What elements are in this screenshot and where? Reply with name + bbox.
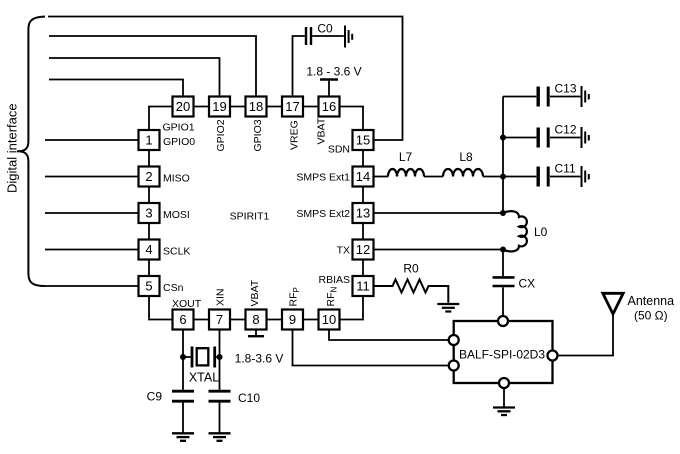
svg-text:19: 19 <box>212 99 226 114</box>
svg-text:VREG: VREG <box>289 120 301 150</box>
pin 8 box <box>246 310 267 330</box>
svg-text:C11: C11 <box>555 162 576 176</box>
svg-text:SPIRIT1: SPIRIT1 <box>230 211 270 223</box>
wire stub pin 3 <box>45 212 139 214</box>
pin 19 box <box>209 97 230 117</box>
balun U2 BALF-SPI-02D3 <box>454 321 553 383</box>
wire balun to ground <box>503 389 505 408</box>
inductor L0 <box>503 211 527 251</box>
pin 13 box <box>353 203 374 223</box>
pin 9 box <box>282 310 303 330</box>
svg-text:RBIAS: RBIAS <box>318 274 350 286</box>
wire bus line 4 to pin 20 <box>49 80 183 97</box>
capacitor C12 <box>503 128 580 148</box>
svg-text:2: 2 <box>145 169 152 184</box>
svg-text:XTAL: XTAL <box>189 371 219 385</box>
svg-text:R0: R0 <box>403 262 419 276</box>
svg-text:10: 10 <box>322 312 336 327</box>
capacitor C11 <box>503 167 580 187</box>
svg-text:12: 12 <box>356 242 370 257</box>
svg-text:SMPS Ext2: SMPS Ext2 <box>296 208 350 220</box>
capacitor C13 <box>503 87 580 107</box>
wire stub pin 4 <box>45 249 139 251</box>
svg-text:SCLK: SCLK <box>163 246 190 258</box>
node C12 junction <box>500 135 506 141</box>
pin 16 box <box>319 97 340 117</box>
wire L7 to L8 <box>424 176 443 178</box>
balun pin bottom <box>499 378 509 388</box>
svg-text:RFP: RFP <box>288 287 302 306</box>
svg-text:C10: C10 <box>238 391 260 405</box>
svg-text:5: 5 <box>145 279 152 294</box>
svg-text:14: 14 <box>356 169 370 184</box>
svg-text:MISO: MISO <box>163 173 190 185</box>
svg-text:GPIO2: GPIO2 <box>215 119 227 151</box>
svg-text:Digital interface: Digital interface <box>5 103 20 193</box>
pin 2 box <box>139 167 160 187</box>
node L0 top junction <box>500 210 506 216</box>
wire pin 12 to rail <box>374 249 504 251</box>
pin 3 box <box>139 203 160 223</box>
chip ring wire <box>149 107 363 320</box>
capacitor C10 <box>209 391 231 433</box>
ground (rotated) for C11 <box>582 166 589 187</box>
pin 5 box <box>139 276 160 296</box>
svg-text:SDN: SDN <box>328 144 350 156</box>
svg-text:C0: C0 <box>317 22 333 36</box>
svg-text:9: 9 <box>289 312 296 327</box>
node xtal right junction <box>217 354 223 360</box>
balun pin left1 <box>449 335 459 345</box>
svg-text:20: 20 <box>176 99 190 114</box>
wire pin 7 down <box>219 330 221 390</box>
pin name labels <box>163 117 351 310</box>
balun pin left2 <box>449 361 459 371</box>
svg-text:18: 18 <box>249 99 263 114</box>
ground (rotated) for C13 <box>582 86 589 107</box>
rail vertical net <box>502 97 504 214</box>
resistor R0 <box>374 280 449 303</box>
wire bus line 2 to pin 18 <box>49 36 256 97</box>
pin 15 box <box>353 130 374 150</box>
digital interface bracket <box>17 17 45 287</box>
inductor L7 <box>374 176 389 178</box>
wire balun to antenna <box>558 314 613 356</box>
wire stub pin 1 <box>45 139 139 141</box>
ground (rotated) for C0 <box>345 26 352 48</box>
supply 1.8-3.6V bottom at pin 8 <box>248 330 264 337</box>
svg-text:GPIO1: GPIO1 <box>163 122 195 134</box>
svg-text:XOUT: XOUT <box>172 298 202 310</box>
antenna <box>603 293 623 314</box>
inductor L8 <box>443 169 483 176</box>
pin 1 box <box>139 130 160 150</box>
ground for balun <box>493 408 515 416</box>
capacitor C9 <box>172 391 194 433</box>
wire pin 13 to rail <box>374 212 504 214</box>
svg-text:8: 8 <box>252 312 259 327</box>
svg-text:GPIO3: GPIO3 <box>252 119 264 151</box>
svg-text:L7: L7 <box>399 150 413 164</box>
svg-text:C9: C9 <box>147 390 163 404</box>
balun pin right <box>548 351 558 361</box>
svg-text:1.8-3.6 V: 1.8-3.6 V <box>235 352 284 366</box>
crystal XTAL <box>183 347 220 368</box>
svg-text:GPIO0: GPIO0 <box>163 136 195 148</box>
wire bus line 1 to pin 15 <box>48 17 403 141</box>
svg-text:C12: C12 <box>555 123 577 137</box>
pin 4 box <box>139 240 160 260</box>
capacitor C0 <box>293 27 344 97</box>
svg-text:15: 15 <box>356 133 370 148</box>
svg-text:SMPS Ext1: SMPS Ext1 <box>296 172 350 184</box>
pin 12 box <box>353 240 374 260</box>
wire pin 10 to balun <box>329 330 448 341</box>
svg-text:13: 13 <box>356 206 370 221</box>
svg-text:RFN: RFN <box>325 287 339 307</box>
wire stub pin 2 <box>45 176 139 178</box>
balun pin top <box>498 316 508 326</box>
pin 11 box <box>353 276 374 296</box>
node xtal left junction <box>180 354 186 360</box>
svg-text:BALF-SPI-02D3: BALF-SPI-02D3 <box>459 348 545 362</box>
supply 1.8-3.6V top <box>320 80 338 97</box>
svg-text:3: 3 <box>145 206 152 221</box>
svg-text:XIN: XIN <box>215 288 227 306</box>
svg-text:17: 17 <box>285 99 299 114</box>
svg-text:CSn: CSn <box>163 282 184 294</box>
svg-text:16: 16 <box>322 99 336 114</box>
ground for R0 <box>437 304 459 312</box>
wire stub pin 5 <box>45 285 139 287</box>
svg-text:Antenna: Antenna <box>628 294 675 308</box>
svg-text:7: 7 <box>216 312 223 327</box>
svg-text:1: 1 <box>145 133 152 148</box>
ground for C10 <box>209 433 231 441</box>
wire bus line 3 to pin 19 <box>49 58 220 97</box>
pin 6 box <box>173 310 194 330</box>
svg-text:VBAT: VBAT <box>249 279 261 306</box>
svg-text:6: 6 <box>179 312 186 327</box>
svg-text:(50 Ω): (50 Ω) <box>634 309 668 323</box>
wire pin 9 to balun <box>293 330 449 366</box>
pin 18 box <box>246 97 267 117</box>
node C11/L8 junction <box>500 174 506 180</box>
svg-text:1.8 - 3.6 V: 1.8 - 3.6 V <box>306 65 361 79</box>
svg-text:C13: C13 <box>555 82 577 96</box>
svg-text:11: 11 <box>356 279 370 294</box>
wire L8 to rail <box>483 176 503 178</box>
wire pin 6 down <box>182 330 184 390</box>
svg-text:TX: TX <box>337 245 350 257</box>
svg-text:CX: CX <box>519 277 536 291</box>
capacitor CX <box>493 277 515 315</box>
ground (rotated) for C12 <box>582 127 589 148</box>
pin numbers <box>145 99 370 327</box>
pin boxes <box>139 97 374 330</box>
svg-text:MOSI: MOSI <box>163 209 190 221</box>
pin 10 box <box>319 310 340 330</box>
pin 7 box <box>209 310 230 330</box>
node L0 bottom junction <box>500 247 506 253</box>
pin 17 box <box>282 97 303 117</box>
svg-text:VBAT: VBAT <box>316 117 328 144</box>
svg-text:4: 4 <box>145 242 152 257</box>
svg-text:L0: L0 <box>534 225 548 239</box>
pin 14 box <box>353 167 374 187</box>
svg-text:L8: L8 <box>459 150 473 164</box>
ground for C9 <box>172 433 194 441</box>
pin 20 box <box>173 97 194 117</box>
